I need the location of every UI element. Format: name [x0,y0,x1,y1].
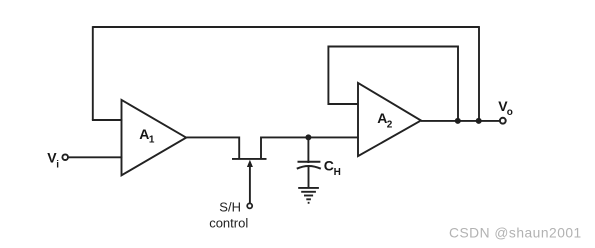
wire: A2 output [421,120,500,122]
wire: switch drain to hold node and A2 input [261,136,359,138]
label Vo [498,98,513,118]
svg-text:H: H [334,167,341,178]
node: outer feedback junction dot [476,118,482,124]
svg-text:control: control [209,215,248,230]
wire: Vi to A1 noninverting input [69,156,123,158]
wire: A2 inner feedback loop [328,47,458,121]
svg-text:1: 1 [149,135,155,146]
svg-text:o: o [507,107,513,118]
svg-text:CSDN @shaun2001: CSDN @shaun2001 [449,225,582,240]
op-amp A1 [122,100,187,175]
node: Vo output terminal [500,118,506,124]
node: inner feedback junction dot [455,118,461,124]
wire: gate lead to control terminal [249,166,251,204]
svg-text:C: C [324,158,334,174]
op-amp A2 [358,83,421,156]
svg-text:2: 2 [387,119,393,130]
svg-text:i: i [56,160,59,171]
node: hold node junction dot [305,134,311,140]
label S/H control [209,199,248,230]
ground [298,188,319,203]
node: Vi input terminal [62,154,68,160]
transistor: S/H switch MOSFET [232,137,267,168]
wire: outer feedback right vertical [478,26,480,121]
wire: A1 output to switch [186,136,239,138]
wire: outer feedback left vertical [92,26,94,120]
node: S/H control terminal [247,203,252,208]
wire: outer feedback top horizontal [93,26,479,28]
label Vi [47,150,59,171]
capacitor CH [297,137,341,188]
wire: A1 inverting input [92,119,122,121]
svg-text:S/H: S/H [219,199,241,214]
